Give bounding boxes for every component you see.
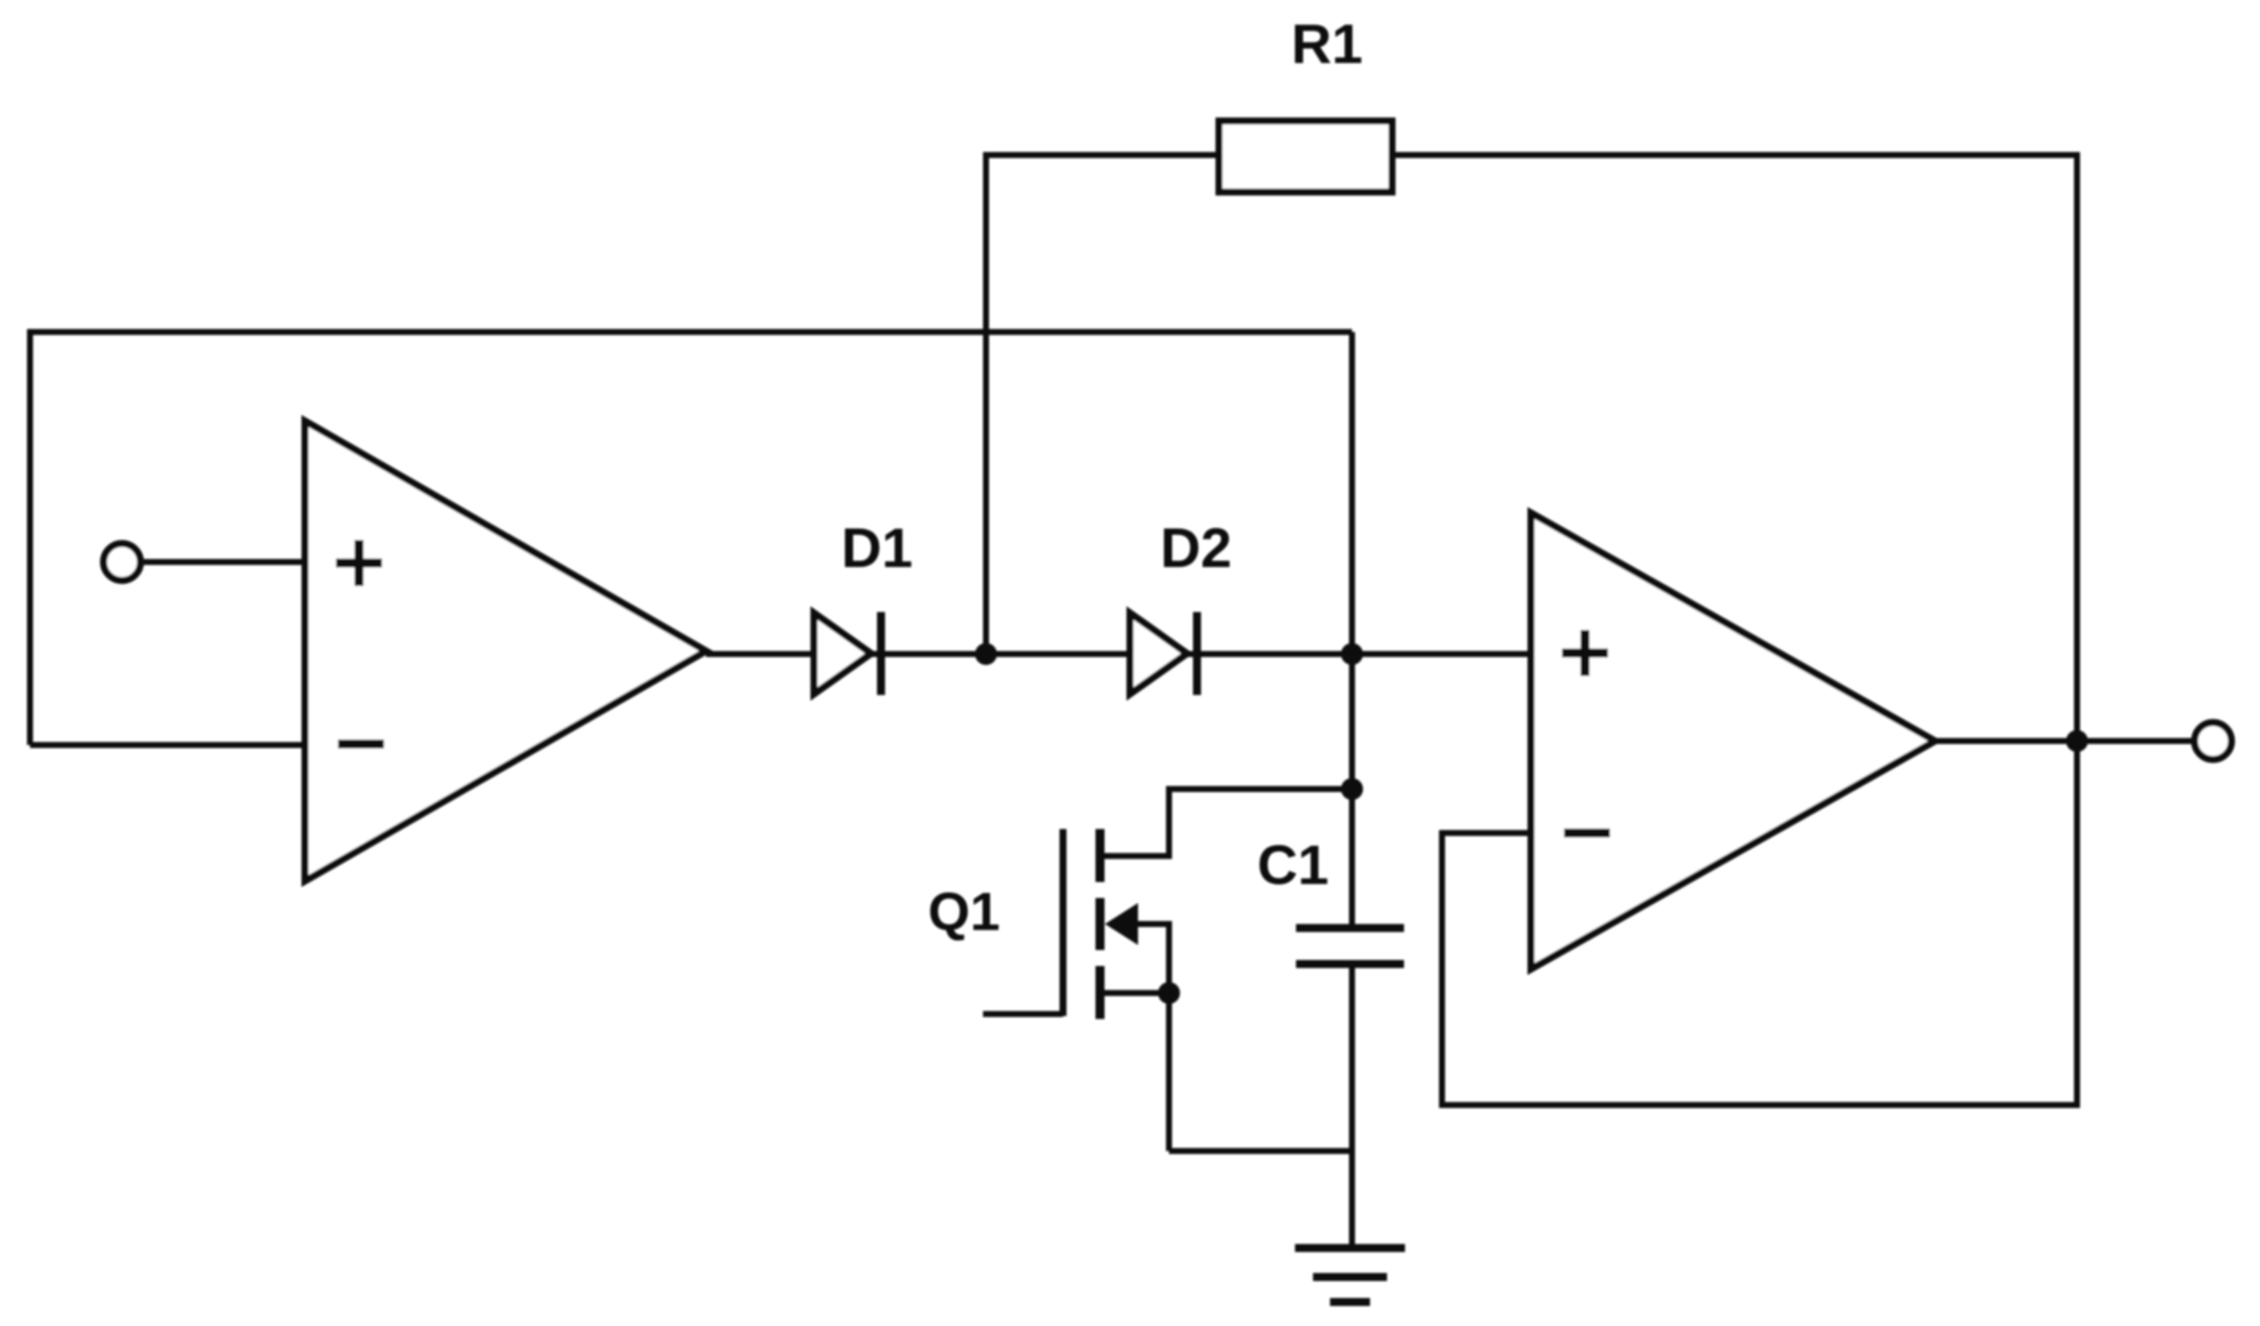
- wire Q1 drain lead: [1101, 853, 1172, 859]
- node junction Q1 source-body: [1158, 982, 1180, 1004]
- wire vertical from feedback into D2 output node: [1349, 332, 1355, 654]
- wire U2 feedback left vertical: [1439, 830, 1445, 1108]
- wire U2 inverting input horizontal: [1442, 830, 1531, 836]
- svg-text:C1: C1: [1257, 833, 1329, 896]
- resistor R1: [1219, 121, 1392, 192]
- capacitor C1: [1296, 928, 1404, 964]
- wire capacitor branch upper: [1349, 654, 1355, 928]
- transistor Q1 channel dashes: [1096, 829, 1105, 1019]
- svg-text:R1: R1: [1291, 12, 1363, 75]
- wire Q1 drain vertical: [1166, 786, 1172, 856]
- wire left vertical from R1 net down to D1-D2 node: [983, 152, 989, 654]
- op-amp U2: [1531, 513, 1935, 969]
- transistor Q1 body arrow: [1105, 903, 1138, 945]
- ground: [1295, 1248, 1405, 1302]
- node junction D1-D2: [975, 643, 997, 665]
- svg-text:D2: D2: [1160, 516, 1232, 579]
- wire Q1 source lead: [1101, 990, 1172, 996]
- diode D1: [814, 612, 881, 695]
- wire capacitor branch lower to ground: [1349, 964, 1355, 1248]
- wire top feedback R1 path: [986, 152, 2077, 158]
- svg-text:D1: D1: [841, 516, 913, 579]
- wire U2 feedback bottom horizontal: [1442, 1102, 2080, 1108]
- wire right vertical from R1 net down to output node: [2074, 152, 2080, 741]
- wire op-amp U1 inverting input bottom horizontal: [30, 742, 305, 748]
- diode D2: [1130, 612, 1197, 695]
- op-amp U1: [305, 421, 706, 881]
- op-amp U1 plus sign: [336, 540, 382, 586]
- op-amp U2 minus sign: [1564, 829, 1610, 838]
- op-amp U2 plus sign: [1562, 630, 1608, 676]
- node junction output: [2066, 730, 2088, 752]
- wire input terminal to U1 non-inverting input: [140, 559, 305, 565]
- wire Q1 source-body vertical down: [1166, 921, 1172, 1151]
- svg-text:Q1: Q1: [928, 882, 1000, 942]
- wire Q1 body arrow shaft: [1112, 921, 1169, 927]
- transistor Q1 gate bar: [1060, 829, 1067, 1016]
- node junction D2-U2: [1341, 643, 1363, 665]
- wire op-amp U1 feedback top horizontal: [30, 329, 1352, 335]
- wire Q1 drain horizontal to C1 node: [1169, 786, 1352, 792]
- wire Q1 source return bottom horizontal: [1169, 1148, 1352, 1154]
- wire Q1 gate lead: [983, 1011, 1063, 1017]
- op-amp U1 minus sign: [338, 740, 384, 749]
- wire U2 feedback right vertical: [2074, 741, 2080, 1105]
- node junction Q1 drain / C1: [1341, 778, 1363, 800]
- input terminal: [104, 544, 141, 581]
- wire U2 output to terminal: [1935, 738, 2195, 744]
- wire op-amp U1 feedback left vertical: [27, 329, 33, 745]
- wire main signal U1 output through D1 D2 to U2 input: [706, 651, 1531, 657]
- output terminal: [2195, 723, 2232, 760]
